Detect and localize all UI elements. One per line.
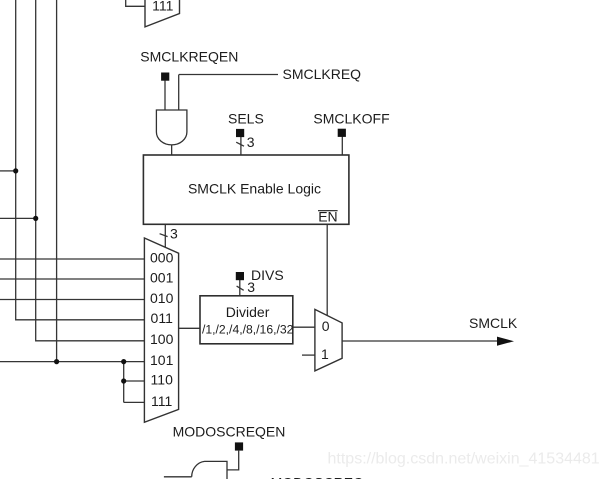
- svg-text:https://blog.csdn.net/weixin_4: https://blog.csdn.net/weixin_41534481: [328, 450, 600, 467]
- svg-text:000: 000: [150, 249, 174, 265]
- svg-text:SMCLKREQEN: SMCLKREQEN: [140, 48, 238, 64]
- svg-text:SMCLK Enable Logic: SMCLK Enable Logic: [188, 180, 321, 196]
- svg-text:010: 010: [150, 290, 174, 306]
- svg-text:Divider: Divider: [226, 304, 270, 320]
- svg-text:DIVS: DIVS: [251, 267, 284, 283]
- svg-text:SMCLKOFF: SMCLKOFF: [313, 111, 389, 127]
- svg-text:MODOSCREQEN: MODOSCREQEN: [173, 424, 286, 440]
- svg-text:111: 111: [151, 393, 172, 409]
- svg-text:3: 3: [247, 279, 255, 295]
- svg-text:111: 111: [152, 0, 173, 13]
- svg-text:100: 100: [150, 331, 174, 347]
- svg-text:SMCLK: SMCLK: [469, 315, 518, 331]
- svg-text:001: 001: [150, 269, 174, 285]
- svg-text:3: 3: [247, 134, 255, 150]
- svg-text:101: 101: [150, 352, 174, 368]
- svg-text:MODOSCREQ: MODOSCREQ: [271, 474, 364, 479]
- svg-text:SELS: SELS: [228, 111, 264, 127]
- svg-text:011: 011: [151, 310, 174, 326]
- svg-text:1: 1: [321, 346, 329, 362]
- svg-text:/1,/2,/4,/8,/16,/32: /1,/2,/4,/8,/16,/32: [202, 323, 294, 337]
- svg-text:SMCLKREQ: SMCLKREQ: [283, 66, 362, 82]
- svg-text:3: 3: [170, 226, 178, 242]
- svg-text:110: 110: [151, 371, 174, 387]
- svg-text:0: 0: [322, 318, 330, 334]
